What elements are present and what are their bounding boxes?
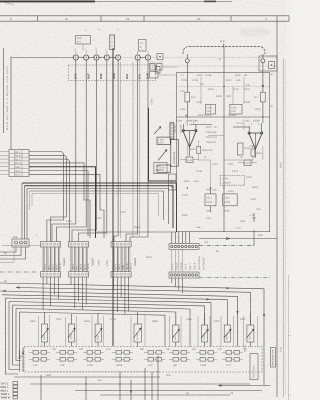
pot box P207 (221, 316, 234, 347)
node B+B brace (183, 40, 265, 54)
pot box P202 (66, 314, 77, 347)
label tag T2 (139, 40, 147, 52)
misc labels mid (4, 211, 263, 283)
wire sw bus (0, 245, 41, 272)
connector tag CN3 (150, 64, 177, 79)
resistor R120 (251, 146, 262, 162)
wire bottom arrow rail (218, 384, 271, 387)
wire strip feeds (172, 232, 190, 244)
connector CN1 dashed group (69, 65, 161, 81)
wire jack4 drop (79, 60, 107, 242)
wire sweep L9 (20, 312, 166, 356)
jack J6 (120, 51, 140, 60)
relay RY1 (220, 176, 244, 186)
transistor Q1 area (169, 174, 177, 190)
wire right rail2 (199, 213, 257, 246)
resistor R119 (197, 140, 213, 160)
capacitor C122 (238, 160, 257, 166)
jack J9 (259, 54, 277, 71)
pin B4G (112, 72, 116, 79)
node left board label (6, 65, 9, 130)
node label C47 (174, 115, 187, 133)
capacitor C102 (230, 104, 242, 114)
title band (0, 2, 289, 21)
wire CN2 out3 (29, 159, 70, 241)
arrow up A1 (18, 350, 20, 372)
fader VR3 (171, 140, 179, 167)
jack J2 (78, 48, 89, 60)
connector CN5 (169, 272, 199, 278)
pin B40 (74, 73, 78, 79)
switch SW5 tape monitor 2 (271, 348, 276, 368)
scan grain overlay (0, 0, 1, 1)
pin B4L (138, 73, 142, 79)
node label right low (280, 346, 283, 352)
pin B4E (99, 73, 103, 79)
resistor group G5 (144, 351, 165, 368)
wire sw2 drops (71, 277, 86, 310)
wire CN2 out4 (29, 163, 90, 238)
IC U1 dark tag (170, 123, 174, 139)
connector legend (1, 382, 18, 400)
jack J1 (73, 48, 78, 60)
resistor group G1 (29, 351, 50, 368)
jack J4 (98, 48, 109, 60)
wire jack6 drop (126, 60, 138, 242)
frame shield lines (22, 183, 177, 239)
wire bottom H2 (14, 376, 160, 378)
amp block outline (177, 47, 270, 232)
wire left border (4, 48, 12, 150)
pot box P206 (198, 313, 210, 347)
resistor group G6 (169, 351, 190, 368)
connector CN6 (0, 236, 29, 263)
pin B4N (146, 73, 150, 79)
wire right rail3 (199, 277, 270, 279)
pot box P201 (39, 312, 50, 347)
wire shield stem (149, 108, 177, 181)
wire CN2 stubs (0, 152, 9, 175)
wire bottom H5 (100, 394, 230, 396)
wire bottom verticals (41, 356, 158, 400)
wire right border (277, 16, 284, 397)
wire aux drop (121, 60, 140, 239)
capacitor C121 (180, 157, 199, 163)
capacitor C114 (205, 188, 216, 213)
resistor group G2 (56, 351, 77, 368)
pin labels CN4 (171, 256, 206, 270)
resistor group G7 (196, 351, 217, 368)
smudges (239, 27, 286, 395)
connector CN4 (169, 244, 199, 250)
wire CN2 out2 (29, 155, 67, 241)
switch SW2 (69, 242, 91, 278)
switch SW3 (111, 242, 133, 278)
volume VR1 (157, 137, 170, 144)
resistor R106 (254, 63, 265, 123)
wire CN2 out1 (29, 152, 64, 242)
IC U2 label (243, 120, 260, 123)
wire jack7 drop (130, 60, 148, 242)
wire sweep L2 (16, 286, 250, 325)
arrow wiper2 (154, 127, 161, 135)
switch SW2 label (92, 257, 95, 266)
fuse F1 (110, 35, 115, 50)
op-amp U1 (182, 124, 212, 156)
wire CN2 out7 (29, 174, 104, 238)
wire cn5 drops (172, 278, 183, 293)
resistor group G8 (222, 351, 243, 368)
wire CN2 out5 (29, 167, 96, 238)
wire jack3 drop (72, 60, 97, 242)
resistor R101 (197, 74, 214, 91)
switch SW1 label (63, 257, 66, 266)
switch SW4 tape monitor (250, 354, 258, 380)
wire dotted rail (150, 57, 277, 66)
wire amp internals (187, 117, 263, 188)
wire sweep L6 (9, 302, 205, 370)
wire sweep L1 (0, 283, 265, 386)
jack J8 (185, 54, 189, 63)
resistor R102 (233, 74, 250, 91)
svg-text:B+ 4.5V: B+ 4.5V (171, 179, 174, 188)
node label B12 (244, 344, 247, 352)
pad P1 (150, 54, 163, 63)
wire jack1 drop (52, 60, 76, 242)
wire bottom H3 (30, 383, 250, 384)
pot wiper arrows (41, 328, 254, 338)
capacitor C101 (206, 104, 216, 114)
svg-text:TAPE MONITOR: TAPE MONITOR (272, 349, 275, 366)
wire CN2 out6 (29, 171, 88, 237)
node junctions (96, 57, 264, 189)
misc labels amp (180, 58, 274, 230)
connector CN2 (9, 150, 29, 183)
node dots (86, 29, 119, 31)
label tag T1 (76, 36, 91, 51)
node label C+5A (151, 99, 154, 105)
resistor R122 (238, 143, 251, 155)
wire bottom H1 (35, 371, 160, 373)
jack J5 (109, 55, 121, 60)
label row (198, 114, 237, 117)
wire input bus (11, 57, 74, 59)
node B55 label right (280, 162, 283, 168)
jack J3 (88, 48, 99, 60)
pot box P204 (131, 312, 145, 347)
wire sweep L7 (13, 305, 191, 365)
pot box P208 (244, 313, 258, 347)
resistor R121 (206, 126, 218, 144)
resistor group G4 (112, 351, 133, 368)
pot box P205 (170, 313, 182, 347)
wire jack2 drop (57, 60, 87, 242)
wire sw3 drops (114, 277, 129, 314)
top edge line (0, 0, 232, 2)
jack J7 (140, 51, 151, 60)
wire block bottom (96, 231, 177, 233)
resistor R117 (206, 189, 218, 192)
volume VR2 (157, 165, 170, 172)
wire shield drop (112, 48, 114, 346)
IC U1 label (176, 120, 198, 123)
misc labels bottom (30, 318, 247, 395)
resistor group G3 (83, 351, 104, 368)
wire sw1 drops (43, 277, 58, 310)
wire jack5 drop (114, 60, 118, 242)
page edge (289, 275, 292, 400)
wire right rail1 (199, 237, 277, 239)
wire sweep L4 (2, 295, 227, 325)
wire sweep L3 (0, 290, 239, 347)
pot box P203 (92, 313, 104, 347)
arrow wiper1 (158, 150, 167, 161)
wire amp inner verticals (201, 77, 244, 117)
wire sweep L8 (16, 309, 176, 361)
tone board dashed (24, 344, 262, 373)
op-amp U2 (233, 123, 263, 158)
pin B4J (125, 73, 129, 79)
resistor R105 (185, 63, 196, 117)
wire CN4-CN5 links (172, 250, 183, 273)
switch SW3 label (134, 257, 137, 266)
wire bottom H4 (75, 390, 262, 391)
pin B4C (87, 72, 91, 79)
capacitor C115 (223, 194, 238, 213)
arrow up A2 (22, 348, 24, 372)
wire sweep L5 (6, 298, 212, 374)
switch SW1 (41, 242, 63, 278)
node label C1 (206, 214, 255, 220)
resistor R130 box (154, 162, 167, 173)
